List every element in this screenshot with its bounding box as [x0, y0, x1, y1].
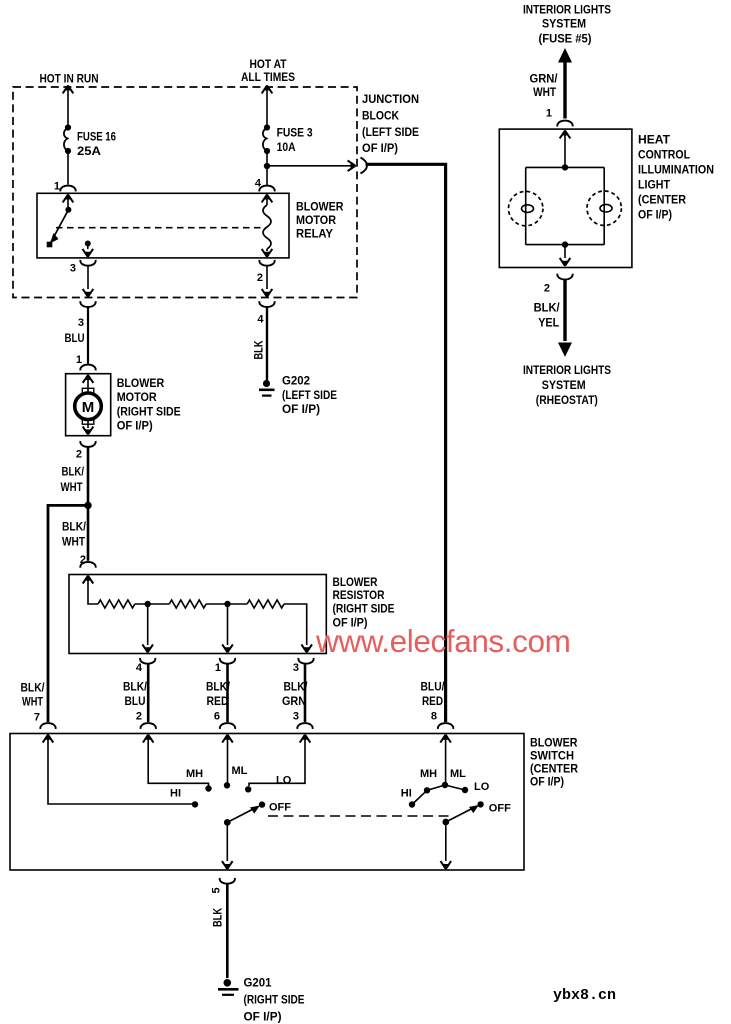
svg-text:SYSTEM: SYSTEM [542, 378, 586, 392]
wire gang 2 pivot to box bottom [445, 822, 447, 861]
svg-text:RED: RED [422, 694, 443, 708]
svg-text:MOTOR: MOTOR [296, 213, 336, 227]
svg-text:(FUSE #5): (FUSE #5) [539, 32, 592, 46]
svg-text:OF I/P): OF I/P) [638, 208, 672, 222]
wire tap drop pin 4 [147, 604, 149, 645]
svg-text:4: 4 [257, 314, 264, 326]
wire fuse F3 junction to relay pin 4 [266, 166, 268, 185]
switch lever (gang 2) [446, 806, 477, 822]
svg-text:OF I/P): OF I/P) [362, 141, 398, 155]
svg-text:INTERIOR LIGHTS: INTERIOR LIGHTS [523, 363, 611, 377]
wire fuse F16 to relay pin 1 [67, 151, 69, 185]
resistor element 2 [169, 600, 206, 608]
wire relay pin 3 to junction block bottom edge [87, 266, 89, 289]
svg-text:6: 6 [214, 711, 220, 723]
motor M1 symbol [83, 375, 94, 383]
light internal return wire [564, 245, 566, 258]
svg-text:BLK/: BLK/ [534, 300, 561, 314]
connector below junction block (center column, pin 4) [259, 301, 274, 307]
svg-text:BLK/: BLK/ [123, 680, 148, 694]
switch wiper feed pin 7 (HI) [43, 734, 54, 742]
svg-text:INTERIOR LIGHTS: INTERIOR LIGHTS [523, 3, 611, 17]
svg-text:(CENTER: (CENTER [638, 193, 686, 207]
svg-text:WHT: WHT [62, 534, 86, 548]
svg-text:LO: LO [276, 774, 292, 786]
pin 2 connector (blower motor) [80, 441, 95, 447]
svg-text:www.elecfans.com: www.elecfans.com [315, 623, 570, 659]
svg-text:GRN: GRN [282, 694, 306, 708]
svg-text:5: 5 [211, 887, 223, 893]
wire junction to block right edge [267, 165, 352, 167]
svg-text:OF I/P): OF I/P) [530, 775, 564, 789]
svg-text:ybx8.cn: ybx8.cn [553, 987, 616, 1004]
svg-text:(RIGHT SIDE: (RIGHT SIDE [117, 404, 181, 418]
wire resistor output to pin 3 drop [284, 604, 307, 645]
svg-text:HOT AT: HOT AT [250, 57, 288, 71]
svg-text:2: 2 [76, 449, 82, 461]
svg-text:SWITCH: SWITCH [530, 749, 574, 763]
node resistor tap (pin 4) [145, 601, 151, 607]
wire to tap 2 [206, 603, 247, 605]
svg-text:WHT: WHT [533, 85, 557, 99]
svg-text:BLOWER: BLOWER [333, 575, 378, 589]
svg-text:BLK: BLK [252, 340, 266, 359]
ground G201 [224, 979, 232, 987]
svg-text:BLK/: BLK/ [62, 520, 87, 534]
wire HOT AT ALL TIMES entry [262, 85, 273, 93]
junction block (dashed boundary) [13, 87, 357, 298]
relay internal dashed link [56, 227, 262, 229]
svg-text:8: 8 [431, 711, 437, 723]
node lamp top junction [562, 164, 568, 170]
switch pivot (gang 1) [224, 819, 231, 826]
wire BLK switch to ground G201 [226, 884, 229, 978]
relay contact arm (pin 1 side) [63, 194, 74, 202]
fuse F3 [264, 124, 270, 130]
svg-text:ALL TIMES: ALL TIMES [241, 70, 295, 84]
svg-text:(RHEOSTAT): (RHEOSTAT) [536, 393, 598, 407]
wire HOT IN RUN entry [63, 85, 74, 93]
svg-text:(RIGHT SIDE: (RIGHT SIDE [244, 993, 305, 1007]
svg-text:MH: MH [186, 768, 203, 780]
lamp parallel wiring [526, 167, 605, 244]
resistor input wire [83, 575, 94, 583]
svg-text:HI: HI [170, 787, 181, 799]
svg-text:OFF: OFF [489, 803, 511, 815]
light internal feed wire [560, 130, 571, 138]
svg-text:BLU/: BLU/ [421, 680, 446, 694]
svg-text:25A: 25A [77, 144, 101, 158]
pin 5 connector (blower switch) [220, 878, 235, 884]
svg-text:BLOCK: BLOCK [362, 109, 399, 123]
contact arc gang 2 [412, 785, 465, 805]
wire BLK/WHT motor to splice [87, 447, 90, 505]
svg-text:3: 3 [293, 711, 299, 723]
svg-text:HEAT: HEAT [638, 133, 671, 147]
svg-text:(LEFT SIDE: (LEFT SIDE [362, 125, 419, 139]
svg-text:1: 1 [546, 107, 552, 119]
svg-text:10A: 10A [277, 140, 296, 154]
resistor element 3 [247, 600, 284, 608]
wire BLK/WHT splice to blower resistor pin 2 [87, 505, 90, 560]
wire BLU/RED thick from junction block to blower switch pin 8 [366, 164, 446, 722]
switch feed pin 8 (gang 2 common) [440, 734, 451, 742]
svg-text:2: 2 [136, 711, 142, 723]
node resistor tap (pin 1) [224, 601, 230, 607]
svg-text:G201: G201 [244, 976, 272, 990]
svg-text:3: 3 [293, 662, 299, 674]
svg-text:HOT IN RUN: HOT IN RUN [40, 72, 99, 86]
switch pivot (gang 2) [442, 819, 449, 826]
node fuse F3 output junction [264, 163, 270, 169]
junction block edge connector [361, 158, 368, 174]
splice node BLK/WHT [84, 502, 91, 509]
svg-text:LO: LO [474, 781, 490, 793]
svg-text:HI: HI [401, 787, 412, 799]
svg-text:BLK/: BLK/ [21, 681, 46, 695]
bulb L1 [509, 191, 543, 225]
svg-text:(CENTER: (CENTER [530, 762, 578, 776]
svg-text:3: 3 [70, 263, 76, 275]
svg-text:BLK/: BLK/ [206, 680, 231, 694]
wire BLK/RED resistor to switch pin 6 [226, 664, 229, 722]
svg-text:RED: RED [207, 694, 229, 708]
svg-text:ML: ML [232, 765, 248, 777]
svg-text:BLK: BLK [211, 908, 225, 927]
relay K1 box BLOWER MOTOR RELAY [37, 193, 289, 258]
svg-text:BLOWER: BLOWER [296, 199, 344, 213]
wire BLK to ground G202 [266, 308, 268, 381]
svg-text:G202: G202 [282, 374, 310, 388]
wire relay pin 2 to junction block bottom edge [266, 266, 268, 289]
svg-text:WHT: WHT [22, 695, 44, 709]
svg-text:OF I/P): OF I/P) [117, 419, 153, 433]
blower switch S1 box [10, 734, 524, 871]
resistor element 1 [98, 600, 135, 608]
blower motor M1 box [66, 374, 111, 436]
svg-text:WHT: WHT [61, 480, 84, 494]
fuse F16 [65, 124, 71, 130]
wire to tap 1 [135, 603, 170, 605]
relay fixed contact to pin 3 [85, 241, 91, 247]
switch feed pin 2 (MH) [143, 734, 154, 742]
svg-text:3: 3 [78, 317, 84, 329]
svg-text:FUSE 3: FUSE 3 [277, 126, 313, 140]
svg-text:YEL: YEL [538, 316, 559, 330]
svg-text:SYSTEM: SYSTEM [542, 17, 586, 31]
bulb L2 [587, 191, 621, 225]
wire BLU relay to blower motor [87, 308, 89, 364]
node lamp bottom junction [562, 241, 568, 247]
connector below junction block (left column, pin 3) [80, 301, 95, 307]
svg-text:GRN/: GRN/ [530, 72, 559, 86]
svg-text:OF I/P): OF I/P) [244, 1009, 282, 1023]
svg-text:BLK/: BLK/ [62, 465, 85, 479]
svg-text:BLU: BLU [125, 694, 146, 708]
svg-text:ILLUMINATION: ILLUMINATION [638, 163, 714, 177]
relay coil [262, 194, 273, 202]
wire tap drop pin 1 [227, 604, 229, 645]
pin 2 connector (relay coil) [259, 260, 274, 266]
switch feed pin 6 (ML) [222, 734, 233, 742]
svg-text:FUSE 16: FUSE 16 [77, 130, 116, 144]
pin 2 connector (illumination light) [557, 274, 572, 280]
mechanical link (dashed) [268, 815, 450, 817]
svg-text:BLU: BLU [65, 331, 85, 345]
switch lever (gang 1) [227, 807, 258, 823]
svg-text:RESISTOR: RESISTOR [333, 588, 385, 602]
svg-text:MH: MH [420, 768, 437, 780]
wire BLK/GRN resistor to switch pin 3 [304, 664, 307, 722]
svg-text:BLOWER: BLOWER [530, 736, 578, 750]
switch feed pin 3 (LO) [300, 734, 311, 742]
wire BLK/WHT splice to blower switch pin 7 [48, 505, 88, 722]
svg-text:(RIGHT SIDE: (RIGHT SIDE [333, 602, 395, 616]
svg-text:OFF: OFF [269, 802, 291, 814]
svg-text:CONTROL: CONTROL [638, 148, 690, 162]
wire pivot to pin 5 [226, 822, 228, 861]
svg-text:2: 2 [257, 272, 263, 284]
wire GRN/WHT arrow to interior lights fuse [558, 48, 572, 63]
wire BLK/BLU resistor to switch pin 2 [147, 664, 150, 722]
ground G202 [263, 380, 270, 387]
svg-text:(LEFT SIDE: (LEFT SIDE [282, 388, 337, 402]
blower resistor R1 box [69, 575, 326, 654]
svg-text:1: 1 [215, 662, 221, 674]
svg-text:2: 2 [544, 282, 550, 294]
svg-text:BLOWER: BLOWER [117, 376, 165, 390]
svg-text:BLK/: BLK/ [284, 680, 309, 694]
svg-text:M: M [82, 399, 95, 416]
svg-text:RELAY: RELAY [296, 226, 333, 240]
svg-text:7: 7 [34, 712, 40, 724]
svg-text:1: 1 [76, 354, 82, 366]
svg-text:JUNCTION: JUNCTION [362, 92, 419, 106]
svg-text:MOTOR: MOTOR [117, 390, 157, 404]
svg-text:1: 1 [54, 181, 60, 193]
svg-text:4: 4 [136, 662, 143, 674]
svg-text:ML: ML [450, 768, 466, 780]
wire fuse F3 to junction node [266, 151, 268, 166]
wire BLK/YEL arrow to rheostat [563, 280, 566, 341]
heat control illumination light box [499, 129, 632, 267]
svg-text:LIGHT: LIGHT [638, 178, 671, 192]
pin 3 connector (relay) [80, 260, 95, 266]
svg-text:OF I/P): OF I/P) [282, 402, 320, 416]
